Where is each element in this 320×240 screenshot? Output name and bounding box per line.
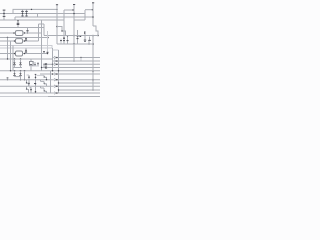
wire jog y50 to bus column — [53, 49, 59, 51]
wire rail y93 right — [58, 92, 101, 94]
connector J1 — [54, 56, 58, 58]
wire bus vertical x10.5 — [10, 41, 12, 71]
wire vertical x77.5 — [77, 30, 79, 44]
node dot (7.5,37.5) — [7, 37, 8, 38]
node dot (24.5,33) — [24, 32, 25, 33]
wire rail VCC mid y13.5 — [0, 13, 85, 15]
wire bus y45.5 — [0, 46, 52, 49]
node dot (93,90) — [92, 89, 94, 91]
capacitor C5 on x27.5 — [26, 28, 28, 34]
wire bus row y64.3 — [58, 63, 101, 65]
wire rail y86.2 left — [0, 85, 54, 87]
capacitor C7 on x26 — [25, 48, 27, 54]
wire vertical x47.5 — [47, 31, 49, 54]
node dot (14.5,53.5) — [14, 53, 16, 55]
node dot (24.5,41) — [24, 40, 26, 42]
node dot (93,71) — [92, 70, 94, 72]
wire vertical x74 — [73, 5, 75, 61]
wire vertical x52.5 — [52, 48, 54, 71]
node dot (93,17) — [92, 16, 94, 18]
capacitor stub x44 on y53.5 — [43, 52, 45, 54]
wire bus vertical x7.5 — [7, 38, 9, 60]
transistor Q8 — [34, 80, 36, 87]
wire bus y48 — [0, 47, 53, 49]
wire rail y20 left — [0, 19, 64, 21]
node dot (14.5,70.6) — [14, 70, 16, 72]
node dot (67.5,35.7) — [67, 35, 69, 37]
wire rail y79.7 right — [58, 79, 101, 81]
transistor Q13 bracket — [41, 86, 47, 93]
wire rail y96.5 — [0, 96, 48, 98]
wire step y10 from x64 to x74 — [64, 9, 74, 11]
wire into U1 — [0, 32, 16, 34]
node dot (14.5,41) — [14, 40, 16, 42]
wire staircase from (57,26.5) to (65.5,35.5) — [57, 27, 66, 36]
wire y67.5 with series capacitor — [41, 66, 100, 68]
wire stub x37.5 between y13.5 and y17 — [37, 14, 39, 18]
wire bus row y64.3 stub — [53, 63, 54, 65]
wire y66 under M1 M2 — [30, 65, 40, 67]
connector J4 — [54, 73, 58, 75]
diode D1 — [13, 59, 15, 68]
connector J6 — [54, 85, 58, 87]
node dot (20.5,70.6) — [20, 70, 22, 72]
pin tick top of x74 — [73, 4, 75, 6]
wire rail y70.5 — [0, 70, 100, 72]
node dot (24.5,70.6) — [24, 70, 26, 72]
wire staircase from (93,26) to (98,35.5) — [93, 26, 98, 36]
node dot (10.5,70.6) — [10, 70, 11, 71]
wire vertical x41.5 long — [41, 20, 43, 71]
wire rail y44 — [57, 43, 93, 45]
wire bus vertical x13 — [12, 46, 14, 71]
node dot (47.5,53.5) — [47, 53, 49, 55]
node dot (20.5,79.7) — [20, 79, 22, 81]
wire out of U3 — [23, 53, 48, 55]
node dot (93,44) — [92, 43, 94, 45]
capacitor C1 — [3, 10, 6, 20]
wire vertical x85 upper — [84, 10, 86, 20]
wire rail y20 right — [74, 19, 85, 21]
node dot (7.5,59) — [7, 58, 8, 59]
node dot (81,57.5) — [80, 57, 82, 59]
capacitor plates at bottom of x85 — [84, 39, 86, 41]
capacitor C4 — [17, 20, 20, 28]
node dot (52.5,74) — [52, 73, 54, 75]
wire into U3 — [0, 53, 16, 55]
transistor Q11 — [30, 88, 32, 93]
node dot (73,10) — [72, 9, 73, 10]
node dot (77.5,36.2) — [77, 35, 79, 37]
wire bus row y57.5 stub — [53, 57, 54, 59]
diode D4 — [19, 71, 21, 80]
node dot (24.5,79.7) — [24, 79, 26, 81]
oscillator U1 box — [16, 31, 23, 36]
wire rail y59 — [0, 58, 53, 60]
diode D2 — [19, 59, 21, 68]
node dot at (31.5,9.4) — [31, 9, 32, 10]
wire y67.5 diode bottoms — [13, 67, 22, 69]
wire vertical x93 lower — [92, 36, 94, 91]
wire bus row y61 stub — [53, 60, 54, 62]
wire stub above U4 — [30, 59, 32, 62]
wire vertical x64 — [63, 10, 65, 44]
node dot (14,33) — [13, 32, 15, 34]
wire rail y17 — [15, 16, 93, 18]
connector J2 — [54, 60, 58, 62]
transistor Q9 bracket — [41, 80, 47, 87]
wire vertical x24.5 — [24, 71, 26, 80]
node dot (98,35.5) — [97, 35, 99, 37]
capacitor C3 — [25, 9, 28, 17]
wire y64.3 segment with series capacitor — [43, 63, 53, 65]
node dot (93,79.7) — [92, 79, 94, 81]
wire y24 from x38.5 to x44 — [39, 23, 45, 25]
wire vertical x44 mid — [43, 64, 45, 67]
wire stub below U4 — [30, 65, 32, 70]
transistor Q10 — [26, 86, 29, 93]
wire row y74 left segment — [40, 73, 54, 75]
node dot (80.5,36.3) — [80, 36, 82, 38]
node dot (20.5,59) — [20, 58, 22, 60]
capacitor C2 — [21, 9, 24, 17]
transistor Q7 — [28, 80, 30, 87]
transistor Q5 bracket — [37, 75, 48, 80]
wire vertical x81 — [80, 58, 82, 62]
ground symbol near x89.5 — [88, 37, 91, 45]
oscillator U3 box — [16, 51, 23, 56]
node dot (93,35.5) — [92, 35, 94, 37]
diode D3 — [13, 71, 15, 77]
wire out of U1 — [23, 32, 42, 34]
capacitor mark on x47.5 — [47, 51, 49, 53]
transistor Q12 — [35, 86, 37, 93]
wire bus row y57.5 — [58, 57, 101, 59]
transistor Q6 — [26, 80, 29, 87]
wire vertical bus x58.5 — [58, 50, 60, 93]
wire y76.6 diode bottoms — [15, 76, 21, 78]
wire rail y27.5 — [0, 27, 44, 29]
node dot (92.5,9.7) — [92, 9, 94, 11]
dark mark in U4 — [30, 64, 32, 66]
transistor Q1 marks on x64 — [63, 37, 65, 39]
node dot (74,13.5) — [73, 13, 75, 15]
small box U4 — [30, 62, 34, 66]
node dot (62,31) — [61, 30, 62, 31]
node dot (74,35.5) — [73, 35, 75, 37]
node dot (24.5,53.5) — [24, 53, 26, 55]
capacitor stub x61 — [60, 39, 62, 45]
wire rail y93 left — [0, 92, 54, 94]
wire vertical x67.5 — [67, 36, 69, 44]
connector J3 — [54, 63, 58, 65]
wire vertical x50.5 — [50, 71, 52, 93]
wire bus row y90 — [59, 89, 101, 91]
wire stub y36.3 — [78, 35, 82, 37]
pin stub x7.5 at bottom left — [7, 78, 9, 81]
transistor M2 stub — [37, 62, 39, 66]
wire bus row y83 — [59, 82, 101, 84]
node dot (48,37.5) — [47, 37, 49, 39]
connector J5 — [54, 79, 58, 81]
wire step y9.7 from x85 to x93 — [85, 9, 93, 11]
transistor M1 stub — [34, 62, 36, 66]
node dot (58.5,90) — [58, 89, 59, 90]
node dot (52.5,70.6) — [52, 70, 54, 72]
oscillator U2 box — [16, 39, 23, 44]
connector J7 — [54, 92, 58, 94]
wire into U2 — [0, 40, 16, 42]
node dot (14.5,59) — [14, 58, 16, 60]
node dot at (57,9.4) — [56, 9, 58, 11]
wire stub x15 between y17 and y20 — [14, 17, 16, 20]
wire rail y37.5 — [0, 37, 48, 39]
node dot (74,43.8) — [73, 43, 75, 45]
wire bus row y61 — [58, 60, 101, 62]
pin tick top of x57 — [56, 4, 58, 6]
node dot (57,26.5) — [56, 26, 58, 28]
transistor Q3 — [27, 75, 30, 80]
wire rail y79.7 left — [0, 79, 54, 81]
transistor Q4 — [35, 74, 37, 79]
capacitor mark on x67.5 — [67, 40, 69, 42]
node dot (58.5,83) — [58, 82, 59, 83]
wire vertical x38.5 — [38, 24, 40, 41]
wire step from y13.5 up to y9.4 — [13, 9, 57, 13]
wire vertical bus x57 — [56, 5, 58, 44]
wire vertical x44 upper — [43, 24, 45, 36]
wire vertical x93 top — [92, 3, 94, 26]
node dot (74,61) — [73, 60, 75, 62]
capacitor C6 on x26 — [25, 38, 27, 42]
wire rail y35.5 — [44, 35, 98, 37]
transistor Q2 vertical x85 lower — [84, 31, 86, 40]
node dot (58.5,70.8) — [58, 70, 59, 71]
wire rail y86.2 right — [58, 85, 101, 87]
wire bus row y74 — [58, 73, 101, 75]
pin tick top of x93 — [92, 2, 94, 4]
wire out of U2 — [23, 40, 39, 42]
